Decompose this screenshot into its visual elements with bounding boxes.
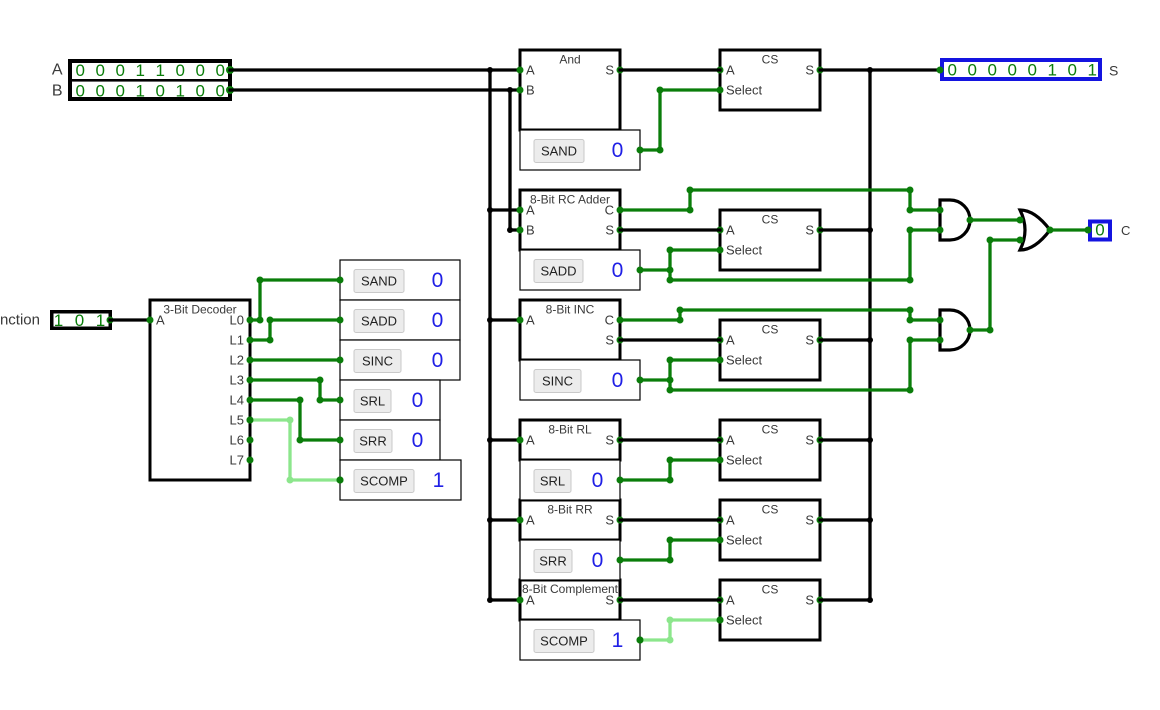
svg-text:CS: CS [762,503,779,517]
block CS3 [720,320,820,380]
block 8-Bit RL U5 [520,420,620,460]
wire B to adder [510,228,520,231]
node SRR wire corners [667,557,674,564]
svg-text:SAND: SAND [361,274,397,289]
tunnel SAND U8 [520,130,640,170]
wire CS out to bus at y=230 [820,228,870,231]
svg-text:SRR: SRR [539,554,566,569]
node S.in [937,67,944,74]
node SRL.out [617,477,624,484]
node SADD.out [637,267,644,274]
junction (870,520) [867,517,873,523]
junction (870,230) [867,227,873,233]
node adderC wire corners [687,207,694,214]
svg-text:A: A [726,513,735,528]
svg-text:Select: Select [726,613,763,628]
wire B bus horizontal [230,88,520,91]
svg-text:0: 0 [195,82,204,101]
svg-text:0: 0 [967,61,976,80]
node decoder.L0 [247,317,254,324]
wire block S to CS A at y=70 [620,68,720,71]
node RL pins [517,437,524,444]
block 8-Bit INC U4 [520,300,620,360]
svg-text:0: 0 [195,61,204,80]
junction (490,70) [487,67,493,73]
node decoder.L1 [247,337,254,344]
svg-text:0: 0 [947,61,956,80]
wire block S to CS A at y=520 [620,518,720,521]
junction (870,340) [867,337,873,343]
svg-text:L6: L6 [230,433,244,448]
svg-text:0: 0 [612,369,624,392]
svg-text:0: 0 [95,61,104,80]
tunnel SCOMP (decoder side) [340,460,461,500]
node CS6 pins [717,597,724,604]
svg-text:1: 1 [175,82,184,101]
svg-text:S: S [1109,63,1118,79]
svg-text:A: A [526,203,535,218]
svg-text:L4: L4 [230,393,244,408]
svg-text:0: 0 [987,61,996,80]
svg-text:0: 0 [75,311,84,330]
wire L4 to SRR tunnel [250,400,340,440]
svg-text:S: S [605,513,614,528]
wire SCOMP to CS6.Select [640,620,720,640]
tunnel SINC (decoder side) [340,340,460,380]
svg-text:CS: CS [762,53,779,67]
svg-text:Select: Select [726,353,763,368]
svg-text:C: C [605,313,614,328]
node decoder.A [147,317,154,324]
svg-text:S: S [805,333,814,348]
svg-text:S: S [805,433,814,448]
wire block S to CS A at y=340 [620,338,720,341]
node SRL.in [337,397,344,404]
svg-text:S: S [605,433,614,448]
wire A to complement [490,598,520,601]
node L1 corner [267,337,274,344]
wire L1 to SADD tunnel [250,320,340,340]
svg-text:L2: L2 [230,353,244,368]
svg-text:L3: L3 [230,373,244,388]
wire L2 to SINC tunnel [250,358,340,361]
node CS4 pins [717,437,724,444]
svg-text:Select: Select [726,243,763,258]
junction (490,210) [487,207,493,213]
svg-text:0: 0 [1067,61,1076,80]
svg-text:A: A [526,593,535,608]
node decoder.L7 [247,457,254,464]
node SCOMP wire corners [667,637,674,644]
wire INC C to AND2 [620,310,940,320]
svg-text:8-Bit INC: 8-Bit INC [546,303,595,317]
node G1 pins [937,207,944,214]
block 8-Bit Complement U7 [520,580,620,620]
node L0 corner [257,317,264,324]
svg-text:0: 0 [155,82,164,101]
wire A to INC [490,318,520,321]
svg-text:0: 0 [612,139,624,162]
svg-text:0: 0 [412,389,424,412]
tunnel SRL (decoder side) [340,380,440,420]
node G2 pins [937,317,944,324]
svg-text:1: 1 [433,469,445,492]
svg-text:S: S [605,63,614,78]
svg-text:B: B [52,83,63,100]
node L3 corner [317,377,324,384]
svg-text:1: 1 [1047,61,1056,80]
junction (490,440) [487,437,493,443]
node SRL wire corners [667,477,674,484]
node CS3 pins [717,337,724,344]
wire adder C to AND1 [620,190,940,210]
wire L3 to SRL tunnel [250,380,340,400]
svg-text:0: 0 [115,82,124,101]
svg-text:Function: Function [0,312,40,329]
svg-text:8-Bit RR: 8-Bit RR [547,503,593,517]
node And pins [517,67,524,74]
svg-text:A: A [526,433,535,448]
block CS6 [720,580,820,640]
tunnel SINC U10 [520,360,640,400]
wire G2 out to OR [970,240,1020,330]
node SAND.in [337,277,344,284]
junction (870,70) [867,67,873,73]
svg-text:0: 0 [592,549,604,572]
wire S collection bus vertical [868,70,871,600]
svg-text:A: A [156,313,165,328]
node SADD.in [337,317,344,324]
svg-text:0: 0 [75,61,84,80]
svg-text:SINC: SINC [362,354,393,369]
wire SADD to CS2.Select and AND1 [640,268,670,271]
node A.out [226,66,234,74]
svg-text:1: 1 [155,61,164,80]
node G3 pins [1017,217,1024,224]
wire CS out to bus at y=440 [820,438,870,441]
decoder U1 3-Bit Decoder [150,300,250,480]
svg-text:SCOMP: SCOMP [360,474,408,489]
svg-text:S: S [605,333,614,348]
svg-text:Select: Select [726,533,763,548]
node decoder.L4 [247,397,254,404]
wire block S to CS A at y=600 [620,598,720,601]
block CS1 [720,50,820,110]
wire SINC to CS3.Select and AND2 [640,378,670,381]
svg-text:S: S [805,223,814,238]
node Function.out [107,317,114,324]
wire G3 out to C output [1050,228,1088,231]
node CS1 pins [717,67,724,74]
svg-text:0: 0 [1007,61,1016,80]
wire SAND to CS1.Select [640,90,720,150]
node SCOMP.in (top) [337,477,344,484]
node SAND wire corners [657,147,664,154]
wire A to RR [490,518,520,521]
svg-text:CS: CS [762,213,779,227]
node SAND.out [637,147,644,154]
junction (510,90) [507,87,513,93]
junction (870,600) [867,597,873,603]
block CS4 [720,420,820,480]
output register S (00000101) [942,60,1100,79]
input register A (00011000) [70,61,230,99]
wire CS out to bus at y=600 [820,598,870,601]
wire A bus horizontal [230,68,520,71]
svg-text:SAND: SAND [541,144,577,159]
svg-text:0: 0 [1027,61,1036,80]
wire CS out to bus at y=520 [820,518,870,521]
tunnel SRR (decoder side) [340,420,440,460]
node L5 corner [287,417,294,424]
tunnel SRR U12 [520,540,620,580]
node complement pins [517,597,524,604]
svg-text:CS: CS [762,583,779,597]
svg-text:A: A [726,63,735,78]
svg-text:A: A [526,513,535,528]
svg-text:1: 1 [1087,61,1096,80]
svg-text:0: 0 [215,82,224,101]
svg-text:A: A [52,62,63,79]
or gate G3 [1020,210,1050,250]
node C.in [1085,227,1092,234]
block CS5 [720,500,820,560]
svg-text:0: 0 [432,269,444,292]
tunnel SADD (decoder side) [340,300,460,340]
and gate G1 [940,200,970,240]
node CS2 pins [717,227,724,234]
svg-text:C: C [605,203,614,218]
svg-text:C: C [1121,223,1130,238]
svg-text:S: S [605,593,614,608]
node SCOMP.out (top) [637,637,644,644]
svg-text:0: 0 [412,429,424,452]
svg-text:0: 0 [175,61,184,80]
junction (490,320) [487,317,493,323]
svg-text:8-Bit RL: 8-Bit RL [548,423,592,437]
node adder pins [517,207,524,214]
svg-text:L1: L1 [230,333,244,348]
node decoder.L2 [247,357,254,364]
wire SRL to CS4.Select [620,460,720,480]
tunnel SCOMP U13 [520,620,640,660]
svg-text:0: 0 [432,349,444,372]
node SADD wire corners [667,267,674,274]
svg-text:S: S [605,223,614,238]
svg-text:0: 0 [612,259,624,282]
svg-text:SCOMP: SCOMP [540,634,588,649]
input register Function (101) [52,312,111,329]
node G2 wire corners [987,327,994,334]
node SRR.out [617,557,624,564]
svg-text:A: A [726,593,735,608]
wire Function to decoder [110,318,150,321]
svg-text:Select: Select [726,83,763,98]
svg-text:1: 1 [96,311,105,330]
wire L5 to SCOMP tunnel [250,420,340,480]
svg-text:A: A [726,333,735,348]
svg-text:S: S [805,593,814,608]
svg-text:SRL: SRL [540,474,565,489]
svg-text:3-Bit Decoder: 3-Bit Decoder [163,303,236,317]
node SCOMP.in [337,477,344,484]
svg-text:SINC: SINC [542,374,573,389]
wire SRR to CS5.Select [620,540,720,560]
svg-text:A: A [526,313,535,328]
node B.out [226,86,234,94]
node incC wire corners [677,317,684,324]
wire A to adder [490,208,520,211]
wire CS1 out to S register [820,68,940,71]
block 8-Bit RR U6 [520,500,620,540]
svg-text:1: 1 [135,61,144,80]
junction (490,600) [487,597,493,603]
node CS6.Select (top) [717,617,724,624]
svg-text:0: 0 [1095,220,1104,239]
node CS5 pins [717,517,724,524]
node RR pins [517,517,524,524]
svg-text:A: A [526,63,535,78]
svg-text:SRR: SRR [359,434,386,449]
svg-text:CS: CS [762,323,779,337]
svg-text:CS: CS [762,423,779,437]
node SCOMP.out [637,637,644,644]
node L4 corner [297,397,304,404]
node decoder.L6 [247,437,254,444]
svg-text:1: 1 [612,629,624,652]
node SINC.in [337,357,344,364]
svg-text:B: B [526,83,535,98]
node decoder.L3 [247,377,254,384]
svg-text:8-Bit Complement: 8-Bit Complement [522,582,619,596]
svg-text:L7: L7 [230,453,244,468]
tunnel SADD U9 [520,250,640,290]
svg-text:Select: Select [726,453,763,468]
svg-text:0: 0 [215,61,224,80]
svg-text:SADD: SADD [540,264,576,279]
wire block S to CS A at y=230 [620,228,720,231]
svg-text:0: 0 [95,82,104,101]
wire CS out to bus at y=340 [820,338,870,341]
wire A vertical bus [488,70,491,600]
svg-text:A: A [726,223,735,238]
svg-text:0: 0 [75,82,84,101]
junction (510,230) [507,227,513,233]
svg-text:SRL: SRL [360,394,385,409]
node decoder.L5 (top) [247,417,254,424]
tunnel SRL U11 [520,460,620,500]
svg-text:0: 0 [592,469,604,492]
block And U2 [520,50,620,130]
wire L0 to SAND tunnel [250,280,340,320]
block 8-Bit RC Adder U3 [520,190,620,250]
node SINC wire corners [667,377,674,384]
node decoder.L5 [247,417,254,424]
svg-text:1: 1 [54,311,63,330]
svg-text:8-Bit RC Adder: 8-Bit RC Adder [530,193,610,207]
svg-text:A: A [726,433,735,448]
svg-text:S: S [805,513,814,528]
node SRR.in [337,437,344,444]
svg-text:S: S [805,63,814,78]
wire A to RL [490,438,520,441]
wire block S to CS A at y=440 [620,438,720,441]
block CS2 [720,210,820,270]
svg-text:0: 0 [115,61,124,80]
junction (490,520) [487,517,493,523]
junction (870,440) [867,437,873,443]
svg-text:0: 0 [432,309,444,332]
svg-text:L5: L5 [230,413,244,428]
wire B vertical bus [508,90,511,230]
tunnel SAND (decoder side) [340,260,460,300]
wire G1 out to OR [970,218,1020,221]
output C (0) [1090,222,1110,240]
and gate G2 [940,310,970,350]
node SINC.out [637,377,644,384]
node INC pins [517,317,524,324]
svg-text:L0: L0 [230,313,244,328]
svg-text:1: 1 [135,82,144,101]
svg-text:And: And [559,53,580,67]
svg-text:SADD: SADD [361,314,397,329]
svg-text:B: B [526,223,535,238]
